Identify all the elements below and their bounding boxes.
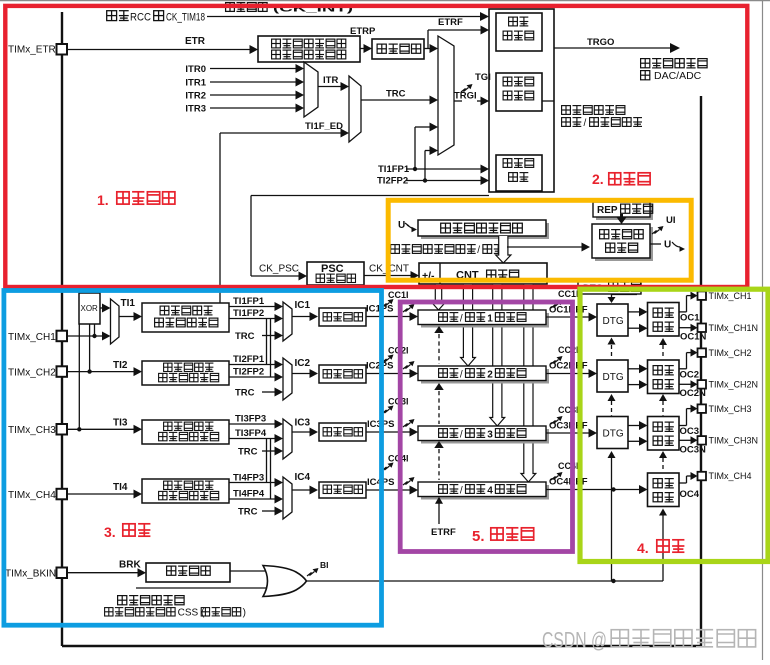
- svg-text:IC3: IC3: [295, 418, 311, 429]
- svg-text:/: /: [584, 118, 587, 129]
- svg-text:TRC: TRC: [238, 446, 258, 457]
- svg-text:1: 1: [487, 314, 493, 325]
- svg-text:ITR3: ITR3: [185, 104, 206, 115]
- svg-text:TIMx_CH2: TIMx_CH2: [709, 348, 752, 358]
- svg-text:CC4I: CC4I: [558, 461, 579, 471]
- svg-text:CC1I: CC1I: [388, 290, 409, 300]
- svg-text:REP: REP: [597, 205, 618, 216]
- svg-text:PSC: PSC: [321, 263, 344, 275]
- svg-text:ITR: ITR: [323, 75, 338, 86]
- svg-text:TI1FP1: TI1FP1: [233, 296, 265, 307]
- svg-text:ETRF: ETRF: [438, 17, 463, 28]
- svg-text:ITR1: ITR1: [185, 78, 206, 89]
- svg-text:OC3N: OC3N: [680, 445, 707, 456]
- svg-text:): ): [243, 608, 246, 619]
- svg-text:TIMx_CH1N: TIMx_CH1N: [709, 323, 759, 333]
- svg-text:TI4: TI4: [113, 482, 128, 493]
- svg-text:TIMx_CH3: TIMx_CH3: [709, 404, 752, 414]
- svg-text:IC1: IC1: [295, 300, 311, 311]
- svg-text:BI: BI: [320, 560, 329, 570]
- svg-text:BRK: BRK: [119, 560, 141, 571]
- svg-text:DTG: DTG: [603, 372, 624, 383]
- svg-text:/: /: [460, 370, 463, 381]
- svg-text:4.: 4.: [637, 540, 649, 556]
- svg-text:TI2FP2: TI2FP2: [233, 367, 264, 378]
- svg-text:UI: UI: [666, 215, 676, 226]
- svg-text:ITR2: ITR2: [185, 91, 206, 102]
- svg-text:CC2I: CC2I: [558, 345, 579, 355]
- svg-text:3: 3: [487, 430, 493, 441]
- svg-text:OC2N: OC2N: [680, 388, 707, 399]
- svg-text:TI2FP2: TI2FP2: [377, 176, 408, 187]
- svg-text:TI2: TI2: [113, 360, 128, 371]
- svg-text:TI3: TI3: [113, 418, 128, 429]
- svg-text:TIMx_CH1: TIMx_CH1: [709, 291, 752, 301]
- svg-text:DTG: DTG: [603, 429, 624, 440]
- svg-text:U: U: [398, 220, 405, 231]
- svg-text:TI1FP2: TI1FP2: [233, 308, 264, 319]
- svg-text:5.: 5.: [472, 528, 485, 545]
- svg-text:4: 4: [487, 486, 493, 497]
- svg-text:OC3: OC3: [680, 426, 700, 437]
- svg-text:OC2: OC2: [680, 370, 700, 381]
- svg-text:OC1: OC1: [680, 313, 700, 324]
- svg-text:TIMx_CH4: TIMx_CH4: [8, 490, 56, 501]
- svg-text:TIMx_ETR: TIMx_ETR: [8, 45, 56, 56]
- svg-text:ITR0: ITR0: [185, 64, 206, 75]
- svg-text:TRC: TRC: [386, 89, 406, 100]
- svg-text:CK_PSC: CK_PSC: [259, 264, 299, 275]
- svg-text:TIMx_CH1: TIMx_CH1: [8, 332, 56, 343]
- svg-text:TI4FP4: TI4FP4: [233, 489, 265, 500]
- svg-text:3.: 3.: [104, 524, 116, 540]
- svg-text:TIMx_CH3: TIMx_CH3: [8, 425, 56, 436]
- svg-text:IC4: IC4: [295, 472, 311, 483]
- svg-text:TI2FP1: TI2FP1: [233, 354, 265, 365]
- svg-text:ETRF: ETRF: [431, 527, 456, 538]
- svg-text:CC1I: CC1I: [558, 289, 579, 299]
- svg-text:ETR: ETR: [185, 36, 206, 47]
- svg-text:ETRP: ETRP: [350, 26, 376, 37]
- svg-text:CSDN @: CSDN @: [542, 628, 607, 653]
- svg-text:TI1: TI1: [121, 298, 136, 309]
- svg-text:TI1F_ED: TI1F_ED: [305, 121, 343, 132]
- svg-text:/: /: [460, 430, 463, 441]
- svg-text:2.: 2.: [592, 171, 604, 187]
- svg-text:/: /: [477, 245, 480, 256]
- svg-text:TIMx_CH4: TIMx_CH4: [709, 471, 752, 481]
- svg-text:TRC: TRC: [238, 506, 258, 517]
- svg-text:/: /: [460, 314, 463, 325]
- svg-text:IC2: IC2: [295, 358, 311, 369]
- svg-text:TIMx_BKIN: TIMx_BKIN: [5, 569, 56, 580]
- svg-text:TRC: TRC: [235, 331, 255, 342]
- svg-text:OC4: OC4: [680, 489, 700, 500]
- svg-text:DTG: DTG: [603, 316, 624, 327]
- svg-text:U: U: [664, 240, 671, 251]
- svg-text:TIMx_CH2: TIMx_CH2: [8, 368, 56, 379]
- svg-text:TI3FP4: TI3FP4: [235, 428, 267, 439]
- svg-text:2: 2: [487, 370, 493, 381]
- svg-text:TRGI: TRGI: [454, 91, 477, 102]
- svg-text:CC3I: CC3I: [558, 405, 579, 415]
- svg-text:TIMx_CH2N: TIMx_CH2N: [709, 380, 759, 390]
- svg-text:RCC: RCC: [130, 12, 151, 24]
- svg-text:1.: 1.: [97, 192, 109, 208]
- svg-text:DAC/ADC: DAC/ADC: [654, 70, 702, 82]
- svg-text:XOR: XOR: [81, 304, 99, 313]
- svg-text:CK_TIM18: CK_TIM18: [166, 12, 205, 24]
- svg-text:TI1FP1: TI1FP1: [378, 164, 410, 175]
- svg-text:OC1N: OC1N: [680, 332, 707, 343]
- svg-text:TRGO: TRGO: [587, 37, 614, 48]
- svg-text:/: /: [460, 486, 463, 497]
- svg-text:TRC: TRC: [235, 387, 255, 398]
- svg-text:TIMx_CH3N: TIMx_CH3N: [709, 436, 759, 446]
- svg-text:TI3FP3: TI3FP3: [235, 414, 266, 425]
